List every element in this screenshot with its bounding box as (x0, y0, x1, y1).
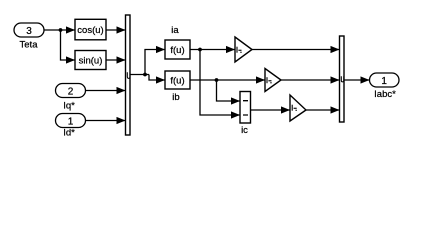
svg-text:ic: ic (241, 125, 248, 136)
svg-text:2: 2 (68, 86, 74, 97)
svg-text:Iabc*: Iabc* (374, 89, 396, 100)
svg-text:1: 1 (381, 76, 387, 87)
svg-text:3: 3 (26, 26, 32, 37)
svg-text:cos(u): cos(u) (77, 25, 103, 36)
svg-text:ib: ib (172, 92, 179, 103)
svg-text:ia: ia (171, 25, 179, 36)
svg-text:Teta: Teta (20, 40, 39, 51)
svg-text:f(u): f(u) (170, 45, 184, 56)
svg-text:1: 1 (68, 116, 74, 127)
svg-text:Iq*: Iq* (63, 101, 75, 112)
svg-text:sin(u): sin(u) (79, 56, 103, 67)
svg-text:Id*: Id* (63, 128, 75, 139)
svg-text:f(u): f(u) (170, 76, 184, 87)
